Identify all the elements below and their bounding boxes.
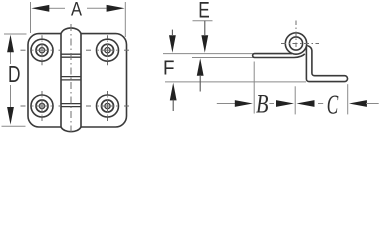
hole bottom-right bbox=[97, 95, 119, 117]
svg-text:B: B bbox=[256, 90, 269, 119]
dimension B left tail line bbox=[217, 103, 235, 105]
dimension A extension line right bbox=[124, 2, 126, 37]
leaf bottom surface extension line bbox=[192, 57, 254, 59]
centerline vertical barrel axis bbox=[70, 24, 72, 133]
extension line C right (bottom leaf end) bbox=[347, 84, 349, 114]
dimension B arrow pointing right at pin center line bbox=[276, 100, 294, 107]
dimension C arrow pointing left at pin center line bbox=[297, 100, 315, 107]
svg-text:E: E bbox=[198, 0, 210, 23]
svg-text:F: F bbox=[163, 58, 175, 80]
dimension D line bbox=[10, 50, 12, 110]
step web and bottom leaf bbox=[306, 46, 347, 82]
dimension A extension line left bbox=[30, 2, 32, 33]
dimension D arrowhead up bbox=[7, 35, 14, 53]
dimension B outside arrow pointing right bbox=[235, 100, 253, 107]
leaf top surface extension line bbox=[163, 53, 254, 55]
dimension F up arrow bbox=[170, 83, 177, 111]
upper leaf (side view) bbox=[253, 54, 305, 58]
dimension A line bbox=[49, 7, 107, 9]
barrel centerline horizontal bbox=[281, 43, 319, 45]
dimension C inner dash bbox=[318, 103, 323, 105]
bottom leaf bottom extension line bbox=[165, 81, 306, 83]
dimension C right tail line bbox=[366, 103, 379, 105]
dimension C outside arrow pointing left bbox=[349, 100, 367, 107]
dimension F down arrow bbox=[169, 30, 176, 53]
hinge barrel (knuckle column) bbox=[61, 28, 81, 132]
dimension E up arrow bbox=[197, 58, 204, 91]
centerlines hole top-right bbox=[86, 35, 129, 65]
knuckle joint lines bbox=[61, 54, 81, 106]
svg-text:D: D bbox=[8, 61, 21, 87]
dimension B inner dash bbox=[269, 103, 274, 105]
dimension A arrowhead right bbox=[107, 5, 125, 12]
dimension D arrowhead down bbox=[7, 107, 14, 125]
svg-text:C: C bbox=[327, 90, 339, 120]
centerlines hole top-left bbox=[21, 35, 62, 65]
barrel outer circle bbox=[285, 33, 306, 54]
extension line pin center bbox=[294, 86, 296, 114]
extension line B left (leaf end) bbox=[253, 62, 255, 114]
hole top-left bbox=[31, 39, 53, 61]
dimension E down arrow bbox=[201, 21, 208, 53]
hole bottom-left bbox=[31, 95, 53, 117]
barrel pin inner circle bbox=[289, 37, 302, 50]
dimension D extension line top bbox=[4, 33, 27, 35]
hole top-right bbox=[97, 39, 119, 61]
centerlines hole bottom-right bbox=[86, 91, 129, 121]
svg-text:A: A bbox=[71, 0, 82, 21]
dimension E top stub line bbox=[193, 20, 213, 22]
dimension D extension line bottom bbox=[2, 125, 26, 127]
dimension A arrowhead left bbox=[31, 5, 49, 12]
centerlines hole bottom-left bbox=[21, 91, 62, 121]
hinge plate outline bbox=[28, 34, 127, 127]
barrel centerline vertical bbox=[295, 21, 297, 50]
